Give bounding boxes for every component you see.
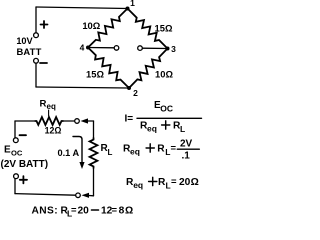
svg-text:L: L <box>180 124 185 134</box>
svg-text:L: L <box>166 181 171 191</box>
svg-text:R: R <box>157 144 165 155</box>
svg-text:0.1 A: 0.1 A <box>58 148 80 158</box>
svg-text:eq: eq <box>133 180 143 190</box>
svg-text:8: 8 <box>119 206 125 217</box>
svg-text:=: = <box>171 143 177 154</box>
svg-text:(2V BATT): (2V BATT) <box>1 159 49 170</box>
svg-text:Ω: Ω <box>191 177 199 188</box>
svg-text:3: 3 <box>171 44 176 54</box>
svg-text:eq: eq <box>147 124 157 134</box>
svg-text:20: 20 <box>78 206 90 217</box>
svg-text:.1: .1 <box>182 151 191 162</box>
svg-text:eq: eq <box>47 102 56 111</box>
svg-text:2: 2 <box>133 88 138 98</box>
svg-text:10Ω: 10Ω <box>155 69 173 80</box>
svg-text:ANS:: ANS: <box>32 206 59 217</box>
svg-text:L: L <box>108 148 113 157</box>
svg-text:2V: 2V <box>180 139 193 150</box>
svg-text:10V: 10V <box>16 36 33 46</box>
svg-text:20: 20 <box>179 177 191 188</box>
svg-text:4: 4 <box>80 43 85 53</box>
svg-text:15Ω: 15Ω <box>155 23 173 34</box>
svg-text:1: 1 <box>130 0 135 8</box>
svg-text:=: = <box>71 205 77 216</box>
svg-text:BATT: BATT <box>16 46 41 57</box>
svg-text:OC: OC <box>160 104 173 114</box>
svg-text:15Ω: 15Ω <box>86 69 104 80</box>
svg-text:10Ω: 10Ω <box>82 20 100 31</box>
svg-text:Ω: Ω <box>125 206 133 217</box>
svg-text:eq: eq <box>130 147 140 157</box>
svg-text:=: = <box>112 205 118 216</box>
svg-text:OC: OC <box>11 149 23 158</box>
svg-text:=: = <box>171 177 177 188</box>
svg-text:I=: I= <box>125 114 134 125</box>
svg-text:R: R <box>40 99 47 110</box>
svg-text:12Ω: 12Ω <box>45 126 62 136</box>
svg-text:E: E <box>4 145 11 156</box>
